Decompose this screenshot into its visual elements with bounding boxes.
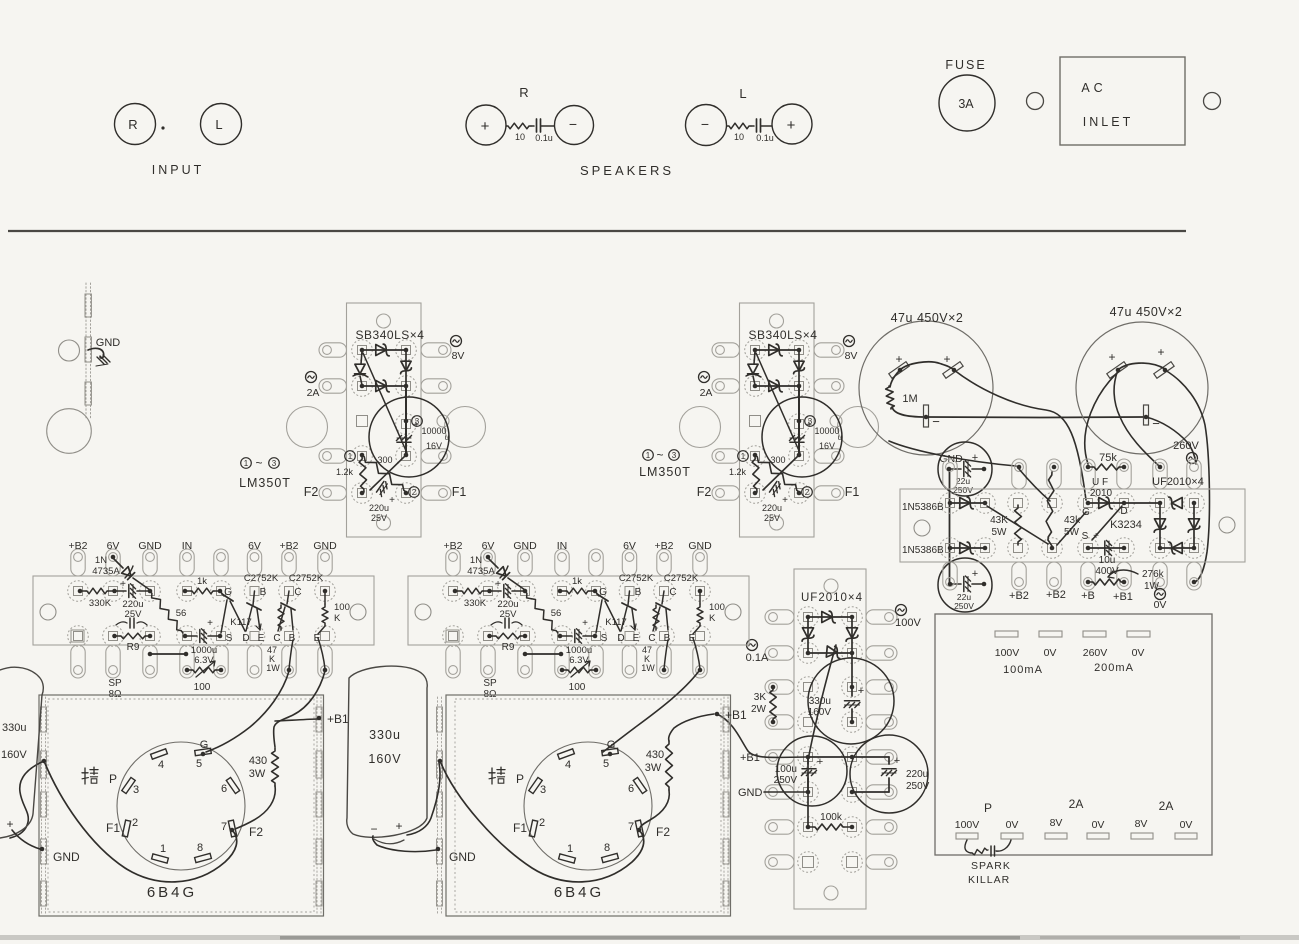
SB2 lug row y456 bbox=[712, 449, 740, 463]
pad row2 bbox=[619, 626, 640, 647]
bridge diode (top) bbox=[1172, 498, 1182, 509]
svg-text:1: 1 bbox=[348, 452, 353, 461]
wire S to D bbox=[1092, 506, 1122, 540]
tube socket ch1 bbox=[117, 742, 245, 870]
wire gate to pad bbox=[1057, 512, 1086, 545]
svg-text:GND: GND bbox=[313, 540, 337, 552]
svg-text:8: 8 bbox=[197, 842, 203, 854]
pad row1 bbox=[478, 581, 499, 602]
pad row1 bbox=[279, 581, 300, 602]
svg-text:16V: 16V bbox=[426, 441, 442, 451]
pad row2 bbox=[940, 538, 961, 559]
svg-text:1N5386B: 1N5386B bbox=[902, 545, 944, 556]
lug (bottom) bbox=[1117, 562, 1131, 590]
svg-text:G: G bbox=[200, 739, 209, 751]
svg-text:430: 430 bbox=[249, 755, 267, 767]
socket pin 3 ch2 bbox=[529, 777, 542, 793]
svg-text:5: 5 bbox=[196, 758, 202, 770]
svg-text:F2: F2 bbox=[656, 825, 670, 839]
speaker R capacitor 0.1u bbox=[531, 125, 534, 127]
svg-text:16V: 16V bbox=[819, 441, 835, 451]
speaker L + jack bbox=[772, 104, 812, 144]
svg-text:L: L bbox=[215, 117, 222, 132]
svg-text:10000: 10000 bbox=[814, 426, 839, 436]
svg-text:SB340LS×4: SB340LS×4 bbox=[749, 328, 818, 342]
svg-text:+: + bbox=[806, 420, 812, 431]
svg-text:+: + bbox=[895, 352, 902, 366]
wire lug to +B1 / resistor (ch1) bbox=[274, 671, 325, 747]
svg-text:6B4G: 6B4G bbox=[554, 884, 604, 901]
svg-text:−: − bbox=[569, 116, 577, 132]
AC terminal 0V bbox=[1155, 589, 1166, 600]
svg-text:25V: 25V bbox=[371, 513, 387, 523]
svg-text:C: C bbox=[273, 633, 280, 644]
pads bbox=[798, 607, 819, 628]
pin 2 (SB2) bbox=[802, 487, 813, 498]
resistor 330K ch2 bbox=[455, 590, 461, 592]
svg-text:2: 2 bbox=[132, 817, 138, 829]
wire GND bus bbox=[949, 470, 951, 583]
svg-text:S: S bbox=[1082, 531, 1089, 542]
terminal + (A right) bbox=[943, 362, 963, 379]
terminal strip TS-HT board bbox=[794, 569, 866, 909]
lug (top) bbox=[247, 549, 261, 576]
svg-text:GND: GND bbox=[96, 337, 121, 349]
svg-text:6V: 6V bbox=[248, 540, 261, 552]
svg-text:+B2: +B2 bbox=[444, 540, 463, 552]
slot strip right ch2 bbox=[723, 697, 725, 914]
svg-text:+: + bbox=[1108, 350, 1115, 364]
speaker R + jack bbox=[466, 105, 506, 145]
svg-text:6B4G: 6B4G bbox=[147, 884, 197, 901]
svg-text:G: G bbox=[1082, 507, 1090, 518]
lug (bottom) bbox=[1187, 562, 1201, 590]
svg-text:1N5386B: 1N5386B bbox=[902, 502, 944, 513]
wire B+ to strip lug (2nd) bbox=[1085, 372, 1118, 464]
wire cap to GND (ch1) bbox=[12, 830, 40, 849]
svg-text:0V: 0V bbox=[1132, 647, 1145, 659]
resistor 300 (SB2) bbox=[755, 455, 799, 492]
wire GND to 100k bbox=[807, 792, 809, 827]
pad row1 bbox=[1042, 493, 1063, 514]
pad row1 bbox=[140, 581, 161, 602]
capacitor 220u 25V (SB1) bbox=[370, 455, 406, 490]
svg-text:2A: 2A bbox=[1159, 799, 1174, 813]
lug row (right) bbox=[866, 785, 897, 799]
capacitor 330u 160V (can) bbox=[808, 658, 894, 744]
svg-text:R: R bbox=[519, 85, 528, 100]
socket pin 7 ch2 bbox=[635, 820, 643, 837]
svg-text:56: 56 bbox=[551, 608, 562, 619]
wires to bottom lugs ch2 bbox=[664, 640, 668, 669]
svg-text:+B2: +B2 bbox=[1009, 590, 1029, 602]
resistor R9 ch2 bbox=[490, 635, 496, 637]
mounting hole bbox=[59, 340, 80, 361]
lug (top) bbox=[282, 549, 296, 576]
amp board ch2 bbox=[408, 576, 749, 645]
lug row (right) bbox=[866, 715, 897, 729]
svg-text:1.2k: 1.2k bbox=[336, 467, 354, 477]
svg-text:C: C bbox=[669, 587, 676, 598]
svg-text:P: P bbox=[984, 801, 992, 815]
resistor 300 (SB1) bbox=[362, 455, 406, 492]
lug (bottom) bbox=[1047, 562, 1061, 590]
SB1 lug row y493 bbox=[319, 486, 347, 500]
pad row2 bbox=[1150, 538, 1171, 559]
svg-text:3: 3 bbox=[272, 459, 277, 468]
SB1 lug row y456 bbox=[319, 449, 347, 463]
capacitor 220u 25V (SB2) bbox=[763, 455, 799, 490]
socket pin 4 ch1 bbox=[151, 749, 168, 759]
pad row2 bbox=[552, 626, 573, 647]
input jack R bbox=[115, 104, 156, 145]
capacitor sleeve arc (ch2) bbox=[374, 839, 404, 844]
lug (top) bbox=[180, 549, 194, 576]
svg-text:100V: 100V bbox=[995, 647, 1020, 659]
lug row (left) bbox=[765, 750, 794, 764]
wire A+ to A+ bbox=[900, 362, 954, 370]
pad row2 bbox=[478, 626, 499, 647]
resistor 1.2k (SB1) bbox=[359, 456, 366, 492]
terminal strip SB2 board bbox=[740, 303, 815, 537]
svg-text:K3234: K3234 bbox=[1110, 519, 1142, 531]
speaker L - jack bbox=[686, 105, 727, 146]
svg-text:−: − bbox=[701, 116, 709, 132]
wire diode to B1 node bbox=[809, 645, 836, 755]
regulator LM350T outline (SB2) bbox=[762, 397, 842, 477]
svg-text:2: 2 bbox=[412, 488, 417, 497]
svg-text:3W: 3W bbox=[645, 762, 662, 774]
lug (top) bbox=[1012, 459, 1026, 489]
svg-text:6V: 6V bbox=[107, 540, 120, 552]
wire G to pin5 (ch2) bbox=[603, 671, 699, 752]
terminal strip SB1 board bbox=[347, 303, 422, 537]
pad row1 bbox=[1150, 493, 1171, 514]
lug (bottom) bbox=[71, 645, 85, 678]
svg-text:330K: 330K bbox=[464, 598, 487, 609]
svg-text:8V: 8V bbox=[1135, 818, 1148, 830]
svg-text:+: + bbox=[207, 618, 213, 629]
svg-text:C: C bbox=[294, 587, 301, 598]
pad row1 bbox=[177, 581, 198, 602]
svg-text:250V: 250V bbox=[954, 601, 974, 611]
svg-text:+: + bbox=[972, 568, 978, 580]
svg-text:6V: 6V bbox=[482, 540, 495, 552]
pad row2 bbox=[690, 626, 711, 647]
svg-text:1k: 1k bbox=[197, 576, 207, 587]
resistor 43K 5W (1) bbox=[1015, 505, 1022, 545]
pin 3 (SB1) bbox=[412, 416, 423, 427]
svg-text:3: 3 bbox=[672, 451, 677, 460]
svg-text:4: 4 bbox=[158, 759, 164, 771]
svg-text:1W: 1W bbox=[266, 663, 280, 673]
svg-text:1.2k: 1.2k bbox=[729, 467, 747, 477]
lug (top) bbox=[1081, 459, 1095, 489]
pad row2 bbox=[279, 626, 300, 647]
svg-text:4: 4 bbox=[565, 759, 571, 771]
lug (bottom) bbox=[555, 645, 569, 678]
lug (top) bbox=[318, 549, 332, 576]
wire A+ to K3234 gate bbox=[954, 370, 1086, 500]
pad row1 bbox=[690, 581, 711, 602]
pad row2 bbox=[140, 626, 161, 647]
chassis edge strip (left) bbox=[85, 283, 87, 418]
svg-text:R9: R9 bbox=[127, 642, 140, 653]
lug (bottom) bbox=[106, 645, 120, 678]
resistor 1M bbox=[890, 370, 900, 387]
AC 2A terminal (SB2) bbox=[699, 372, 710, 383]
pad row1 bbox=[940, 493, 961, 514]
lug row (left) bbox=[765, 820, 794, 834]
capacitor 220u 250V (can) bbox=[850, 735, 928, 813]
SB1 lug row y350 bbox=[319, 343, 347, 357]
speaker L resistor 10 bbox=[727, 123, 751, 129]
svg-text:+B1: +B1 bbox=[725, 708, 747, 722]
svg-text:2A: 2A bbox=[307, 387, 320, 399]
svg-text:1: 1 bbox=[244, 459, 249, 468]
svg-text:430: 430 bbox=[646, 749, 664, 761]
svg-text:6V: 6V bbox=[623, 540, 636, 552]
resistor 276k 1W bbox=[1088, 581, 1092, 583]
wire B+ to B+ bbox=[1118, 363, 1165, 370]
power transformer box bbox=[935, 614, 1212, 855]
pad row1 bbox=[1114, 493, 1135, 514]
svg-text:1: 1 bbox=[567, 843, 573, 855]
pads bbox=[798, 747, 819, 768]
chassis box ch1 bbox=[39, 695, 324, 916]
bridge diode (right vertical) bbox=[1189, 519, 1200, 529]
svg-text:GND: GND bbox=[738, 787, 763, 799]
svg-text:C2752K: C2752K bbox=[619, 573, 654, 584]
speaker R - jack bbox=[555, 106, 594, 145]
wire B+ to strip lug 8V bbox=[1114, 370, 1158, 465]
resistor 1k ch1 bbox=[185, 590, 191, 592]
scan edge bottom bbox=[0, 935, 1299, 940]
svg-text:7: 7 bbox=[221, 821, 227, 833]
svg-text:250V: 250V bbox=[906, 781, 930, 792]
resistor R9 ch1 bbox=[115, 635, 121, 637]
svg-text:100: 100 bbox=[569, 682, 586, 693]
pad row1 bbox=[975, 493, 996, 514]
divider line bbox=[8, 230, 1186, 232]
diode UF2010 (K3234 drain) bbox=[1088, 502, 1160, 504]
svg-text:F2: F2 bbox=[697, 485, 712, 499]
svg-text:INLET: INLET bbox=[1083, 115, 1133, 129]
svg-text:SP: SP bbox=[108, 678, 122, 689]
wire A to strip lug bbox=[889, 441, 1016, 466]
svg-text:0V: 0V bbox=[1092, 819, 1105, 831]
pad row1 bbox=[211, 581, 232, 602]
svg-text:3: 3 bbox=[133, 784, 139, 796]
tube socket ch2 bbox=[524, 742, 652, 870]
svg-text:F1: F1 bbox=[106, 821, 120, 835]
SB1 lug row y386 bbox=[319, 379, 347, 393]
svg-text:1N: 1N bbox=[470, 555, 482, 566]
svg-text:100u: 100u bbox=[775, 764, 797, 775]
pad row1 bbox=[619, 581, 640, 602]
lug (top) bbox=[1117, 459, 1131, 489]
SB2 lug row y493 bbox=[712, 486, 740, 500]
capacitor (row2) ch2 bbox=[491, 622, 502, 625]
svg-text:GND: GND bbox=[138, 540, 162, 552]
regulator LM350T outline (SB1) bbox=[369, 397, 449, 477]
svg-text:160V: 160V bbox=[1, 749, 27, 761]
speaker R resistor 10 bbox=[506, 123, 531, 129]
terminal - (B) bbox=[1144, 405, 1149, 425]
svg-text:56: 56 bbox=[176, 608, 187, 619]
svg-text:E: E bbox=[258, 633, 265, 644]
svg-text:0V: 0V bbox=[1180, 819, 1193, 831]
svg-text:10u: 10u bbox=[1099, 555, 1116, 566]
pot 100 ch2 bbox=[562, 669, 567, 671]
pad row1 bbox=[443, 581, 464, 602]
wire strip to filter cap (ch1) bbox=[10, 761, 44, 838]
pad row2 bbox=[1042, 538, 1063, 559]
lug (bottom) bbox=[282, 645, 296, 678]
svg-text:0V: 0V bbox=[1154, 599, 1167, 611]
svg-text:8V: 8V bbox=[452, 350, 465, 362]
zener 1N4735A ch2 bbox=[486, 555, 491, 560]
socket pin 5 ch2 bbox=[602, 748, 619, 755]
wire resistor to pin7 (ch1) bbox=[235, 786, 275, 829]
svg-text:330K: 330K bbox=[89, 598, 112, 609]
wire node bbox=[987, 506, 1048, 544]
terminal - (A) bbox=[924, 405, 929, 427]
pad row2 bbox=[1114, 538, 1135, 559]
socket pin 4 ch2 bbox=[558, 749, 575, 759]
lug row (left) bbox=[765, 680, 794, 694]
svg-text:SB340LS×4: SB340LS×4 bbox=[356, 328, 425, 342]
dot between jacks bbox=[161, 126, 164, 129]
slot strip left ch2 bbox=[437, 697, 439, 914]
svg-text:~: ~ bbox=[656, 448, 663, 462]
svg-text:K: K bbox=[709, 613, 716, 624]
svg-text:160V: 160V bbox=[808, 707, 832, 718]
svg-text:GND: GND bbox=[53, 850, 80, 864]
svg-text:R: R bbox=[128, 117, 137, 132]
svg-text:6: 6 bbox=[628, 783, 634, 795]
socket pin 1 ch1 bbox=[152, 854, 169, 863]
pin 1 (SB2) bbox=[738, 451, 749, 462]
svg-text:7: 7 bbox=[628, 821, 634, 833]
svg-text:U F: U F bbox=[1092, 477, 1108, 488]
svg-text:4735A: 4735A bbox=[92, 566, 120, 577]
svg-text:+B2: +B2 bbox=[655, 540, 674, 552]
pin 2 (SB1) bbox=[409, 487, 420, 498]
svg-text:250V: 250V bbox=[774, 775, 798, 786]
svg-text:S: S bbox=[226, 633, 233, 644]
svg-text:GND: GND bbox=[688, 540, 712, 552]
lug (bottom) bbox=[446, 645, 460, 678]
svg-text:+: + bbox=[972, 452, 978, 464]
svg-text:L: L bbox=[739, 86, 746, 101]
pads bbox=[798, 782, 819, 803]
lug (bottom) bbox=[518, 645, 532, 678]
slot strip right ch1 bbox=[316, 697, 318, 914]
pad row1 bbox=[586, 581, 607, 602]
lug (top) bbox=[622, 549, 636, 576]
label 1-3 LM350T (ch1) bbox=[241, 458, 252, 469]
capacitor 22u 250V (lower) bbox=[938, 558, 992, 612]
resistor 1k ch2 bbox=[560, 590, 566, 592]
pad row1 bbox=[1078, 493, 1099, 514]
lug (top) bbox=[143, 549, 157, 576]
AC 8V terminal (SB1) bbox=[451, 336, 462, 347]
capacitor can 47u 450V x2 (A) bbox=[859, 321, 993, 455]
ground symbol bbox=[97, 357, 104, 364]
resistor 100k bbox=[808, 826, 814, 828]
svg-text:+: + bbox=[943, 352, 950, 366]
slot strip left ch1 bbox=[41, 697, 43, 914]
pad row2 bbox=[654, 626, 675, 647]
svg-text:F1: F1 bbox=[452, 485, 467, 499]
svg-text:1k: 1k bbox=[572, 576, 582, 587]
svg-text:E: E bbox=[633, 633, 640, 644]
lug (top) bbox=[446, 549, 460, 576]
AC symbol 260V bbox=[1187, 453, 1198, 464]
wire B- branch bbox=[1146, 417, 1196, 464]
pad row1 bbox=[68, 581, 89, 602]
svg-text:+B2: +B2 bbox=[280, 540, 299, 552]
svg-text:0.1A: 0.1A bbox=[746, 652, 769, 664]
svg-text:8: 8 bbox=[604, 842, 610, 854]
svg-text:47u 450V×2: 47u 450V×2 bbox=[891, 311, 964, 325]
svg-text:SPEAKERS: SPEAKERS bbox=[580, 163, 674, 178]
svg-text:2: 2 bbox=[805, 488, 810, 497]
wire +B1 to resistor (ch2) bbox=[669, 714, 714, 741]
svg-text:D: D bbox=[617, 633, 624, 644]
svg-text:0.1u: 0.1u bbox=[756, 133, 774, 143]
lug row (right) bbox=[866, 646, 897, 660]
socket pin 2 ch2 bbox=[529, 820, 537, 837]
resistor 100K ch2 bbox=[699, 591, 701, 604]
svg-text:5: 5 bbox=[603, 758, 609, 770]
svg-text:S: S bbox=[601, 633, 608, 644]
svg-text:+: + bbox=[1157, 345, 1164, 359]
terminal + (B left) bbox=[1107, 362, 1127, 379]
svg-text:10: 10 bbox=[734, 132, 744, 142]
svg-text:1W: 1W bbox=[641, 663, 655, 673]
svg-text:2W: 2W bbox=[751, 704, 767, 715]
pad row2 bbox=[443, 626, 464, 647]
svg-text:1N: 1N bbox=[95, 555, 107, 566]
pad row1 bbox=[552, 581, 573, 602]
pads bbox=[798, 817, 819, 838]
svg-text:AC: AC bbox=[1081, 81, 1106, 95]
lug (bottom) bbox=[622, 645, 636, 678]
wire strip to filter cap plus (ch2) bbox=[407, 763, 440, 835]
svg-text:+: + bbox=[582, 618, 588, 629]
AC 8V terminal (SB2) bbox=[844, 336, 855, 347]
socket pin 2 ch1 bbox=[122, 820, 130, 837]
svg-text:1: 1 bbox=[646, 451, 651, 460]
svg-text:KILLAR: KILLAR bbox=[968, 874, 1010, 886]
rectifier diode D1 (SB1) bbox=[362, 349, 406, 351]
svg-text:+: + bbox=[787, 117, 796, 134]
pad row1 bbox=[315, 581, 336, 602]
resistor 47K 1W ch2 bbox=[653, 605, 659, 630]
chassis box ch2 bbox=[446, 695, 731, 916]
ground wire bbox=[88, 348, 104, 358]
pin 1 (SB1) bbox=[345, 451, 356, 462]
lug (top) bbox=[1187, 459, 1201, 489]
svg-text:276k: 276k bbox=[1142, 569, 1165, 580]
svg-text:100: 100 bbox=[709, 602, 725, 613]
label P (orange wire) ch1 bbox=[82, 772, 88, 774]
lug row (left) bbox=[765, 610, 794, 624]
primary terminals 100V 0V 8V 0V 8V 0V bbox=[956, 833, 978, 839]
svg-text:SP: SP bbox=[483, 678, 497, 689]
